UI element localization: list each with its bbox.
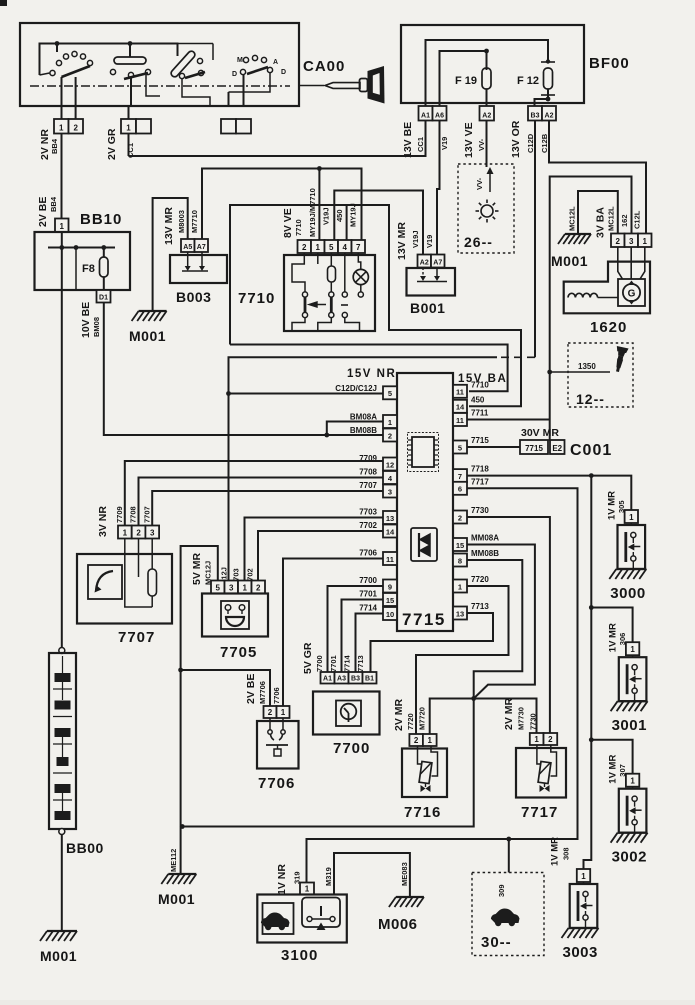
7710 interior: pin1 stub	[317, 253, 319, 264]
wire 7702	[258, 531, 383, 581]
wires 7709/7708/7707 to pins 12/4/3	[125, 461, 383, 526]
svg-text:13: 13	[456, 609, 464, 618]
svg-text:7714: 7714	[359, 604, 377, 613]
svg-text:14: 14	[386, 527, 395, 536]
svg-text:307: 307	[618, 764, 627, 777]
svg-text:13: 13	[386, 514, 394, 523]
internal bus A	[426, 40, 549, 106]
svg-text:MC12L: MC12L	[607, 206, 616, 231]
connector A2 under BF00	[480, 106, 495, 121]
ground M001 (bottom left)	[47, 930, 77, 932]
svg-text:BB4: BB4	[50, 138, 59, 154]
fuse box BF00	[401, 25, 584, 103]
svg-text:2: 2	[414, 736, 419, 745]
svg-text:2: 2	[256, 583, 261, 592]
svg-text:7715: 7715	[402, 610, 446, 629]
svg-text:1V MR: 1V MR	[606, 491, 617, 520]
svg-text:C001: C001	[570, 442, 612, 459]
svg-text:7: 7	[356, 243, 361, 252]
svg-text:1: 1	[581, 872, 586, 881]
svg-text:F 19: F 19	[455, 75, 477, 87]
svg-text:CA00: CA00	[303, 58, 345, 75]
svg-text:14: 14	[456, 403, 465, 412]
svg-text:2V BE: 2V BE	[245, 674, 257, 704]
svg-text:B3: B3	[351, 675, 360, 682]
svg-text:A1: A1	[421, 112, 430, 119]
svg-text:1: 1	[458, 582, 462, 591]
7710 interior: resistor + switch 2	[330, 253, 332, 266]
svg-text:M001: M001	[129, 328, 166, 344]
connector A1|A6 under BF00	[419, 106, 433, 121]
wire 7730 : pin2R to 7717	[467, 517, 550, 733]
ground M001 (mid)	[139, 310, 167, 312]
svg-text:B001: B001	[410, 300, 445, 316]
svg-text:1V MR: 1V MR	[608, 755, 619, 784]
svg-text:7710: 7710	[294, 219, 303, 236]
svg-text:3: 3	[629, 237, 634, 246]
svg-text:7710: 7710	[238, 290, 275, 307]
wire 7720 : pin1R to 7716	[416, 586, 509, 734]
battery BB00	[61, 290, 63, 648]
svg-text:BB4: BB4	[49, 196, 58, 212]
speedometer sensor 1620	[564, 262, 650, 314]
svg-text:C12D: C12D	[526, 133, 535, 153]
svg-text:7715: 7715	[471, 436, 489, 445]
svg-text:309: 309	[497, 884, 506, 897]
svg-text:M001: M001	[40, 948, 77, 964]
svg-text:MY19J/M7710: MY19J/M7710	[308, 188, 317, 237]
svg-text:A2: A2	[420, 259, 429, 266]
svg-text:V19J: V19J	[322, 207, 331, 225]
svg-text:13V OR: 13V OR	[510, 120, 522, 158]
svg-text:5: 5	[458, 443, 462, 452]
wire M7710 : B003-A7 to 7710 pins 1/7	[202, 169, 362, 241]
dashed box 30-- (alarm page 30)	[472, 873, 544, 956]
svg-text:7702: 7702	[359, 521, 377, 530]
wire battery to ground	[61, 834, 63, 931]
7710 interior: switch 1	[292, 253, 305, 292]
svg-text:BF00: BF00	[589, 55, 630, 72]
svg-text:3001: 3001	[612, 717, 647, 734]
svg-text:306: 306	[618, 633, 627, 646]
wires 7700/7701/7714 to pins 9/15/10	[328, 586, 384, 672]
svg-text:1: 1	[534, 735, 539, 744]
svg-text:MM08A: MM08A	[471, 534, 499, 543]
svg-text:1: 1	[316, 243, 321, 252]
BB10 internal bus + fuse F8	[61, 232, 63, 290]
svg-text:V19J: V19J	[411, 230, 420, 248]
svg-text:7703: 7703	[359, 508, 377, 517]
svg-text:1V MR: 1V MR	[608, 623, 619, 652]
svg-text:2: 2	[458, 513, 462, 522]
wire 8V VE feed path (from 7715 pin11R wrap)	[230, 205, 521, 406]
svg-text:3000: 3000	[610, 585, 645, 602]
svg-text:D: D	[232, 71, 237, 78]
svg-text:7706: 7706	[272, 687, 281, 704]
svg-text:1V MR: 1V MR	[550, 837, 561, 866]
svg-text:5: 5	[329, 243, 334, 252]
svg-text:10: 10	[386, 610, 394, 619]
svg-text:305: 305	[617, 500, 626, 513]
connector (blank) under CA00	[221, 119, 236, 134]
svg-text:M7710: M7710	[190, 210, 199, 233]
svg-text:11: 11	[386, 555, 394, 564]
wire M319 to M006	[334, 853, 410, 897]
svg-text:1: 1	[281, 708, 286, 717]
svg-text:7706: 7706	[258, 775, 295, 792]
svg-text:3: 3	[388, 487, 392, 496]
door switch 3003	[577, 869, 590, 882]
wire MM08A : pin15R to ground junction	[467, 545, 535, 699]
svg-text:3: 3	[150, 528, 155, 537]
svg-text:450: 450	[471, 395, 485, 404]
door switch 3001	[626, 642, 639, 655]
svg-text:30V MR: 30V MR	[521, 427, 559, 439]
svg-text:3002: 3002	[612, 849, 647, 866]
ground link M7720-M7730	[430, 699, 537, 735]
svg-text:M7706: M7706	[258, 681, 267, 704]
svg-text:G: G	[628, 289, 636, 300]
wire 450 : 7710 pin4 riser	[346, 205, 348, 240]
svg-text:7701: 7701	[359, 590, 377, 599]
svg-text:9: 9	[388, 582, 392, 591]
svg-text:7700: 7700	[333, 740, 370, 757]
svg-text:C12L: C12L	[633, 210, 642, 229]
svg-text:2V BE: 2V BE	[37, 197, 49, 227]
svg-text:2V MR: 2V MR	[393, 698, 405, 731]
svg-text:M006: M006	[378, 916, 418, 933]
svg-text:1: 1	[59, 123, 64, 132]
svg-text:3003: 3003	[563, 944, 598, 961]
wire CC1 : CA00 to BF00-A1	[129, 121, 426, 157]
svg-text:7720: 7720	[406, 713, 415, 730]
svg-text:3V BA: 3V BA	[595, 207, 607, 238]
svg-text:2: 2	[388, 431, 392, 440]
svg-text:7707: 7707	[359, 481, 377, 490]
svg-text:M319: M319	[324, 867, 333, 886]
svg-text:7717: 7717	[471, 477, 489, 486]
svg-text:2: 2	[136, 528, 141, 537]
svg-text:1: 1	[243, 583, 248, 592]
svg-text:7717: 7717	[521, 804, 558, 821]
sensor icon	[612, 346, 629, 373]
svg-text:7: 7	[458, 472, 462, 481]
wire C12D : BF00-B3 down	[534, 121, 536, 358]
fuel gauge 7707	[124, 539, 126, 555]
svg-text:11: 11	[456, 416, 464, 425]
svg-text:13V BE: 13V BE	[402, 122, 414, 158]
wire C12B : BF00-A2 to 1620 pin1 (C12L)	[549, 121, 646, 234]
svg-text:VV-: VV-	[477, 138, 486, 151]
svg-text:8: 8	[458, 556, 462, 565]
wire 2V GR CC1	[128, 134, 130, 157]
svg-text:BM08: BM08	[92, 317, 101, 337]
ground collector G1	[182, 699, 473, 827]
wire M7706 to ground rail	[181, 670, 270, 706]
wire MC12L : 1620 pin2 to ground	[578, 191, 618, 234]
svg-text:13V VE: 13V VE	[463, 122, 475, 158]
svg-text:12: 12	[386, 460, 394, 469]
svg-text:7730: 7730	[471, 506, 489, 515]
svg-text:C12B: C12B	[540, 133, 549, 153]
svg-text:A5: A5	[183, 244, 192, 251]
svg-text:13V MR: 13V MR	[396, 222, 408, 260]
svg-text:2: 2	[548, 735, 553, 744]
internal bus B	[440, 51, 487, 106]
svg-text:7700: 7700	[315, 655, 324, 672]
svg-text:7707: 7707	[142, 506, 151, 523]
svg-text:C12D/C12J: C12D/C12J	[335, 384, 377, 393]
svg-text:7701: 7701	[329, 655, 338, 672]
door switch 3000	[625, 510, 638, 523]
wire 7718 : pin7R to switch feeds	[467, 476, 631, 510]
svg-text:3100: 3100	[281, 947, 318, 964]
wire VV- : BF00-A2 to box 26	[486, 121, 488, 168]
wire MC12J to ground rail	[181, 546, 218, 874]
svg-text:7700: 7700	[359, 576, 377, 585]
7710 interior: switch 3 contact	[344, 253, 346, 292]
svg-text:BB10: BB10	[80, 211, 122, 228]
ignition switch CA00	[20, 23, 345, 106]
wire 7703	[245, 518, 384, 581]
svg-text:A2: A2	[545, 112, 554, 119]
svg-text:M7730: M7730	[517, 707, 526, 730]
svg-text:7709: 7709	[115, 506, 124, 523]
instrument cluster 7715	[397, 373, 453, 631]
ground M006	[396, 896, 424, 898]
svg-text:7706: 7706	[359, 549, 377, 558]
svg-text:MY19J: MY19J	[349, 203, 358, 227]
7710 inner box	[284, 255, 375, 331]
svg-text:B1: B1	[365, 675, 374, 682]
svg-text:1: 1	[428, 736, 433, 745]
svg-text:7708: 7708	[129, 506, 138, 523]
connector 1|2|3 above 7707	[118, 526, 132, 539]
svg-text:M: M	[237, 57, 243, 64]
svg-text:F 12: F 12	[517, 75, 539, 87]
svg-text:A: A	[273, 59, 278, 66]
svg-text:1: 1	[630, 645, 635, 654]
svg-text:2: 2	[302, 243, 307, 252]
svg-text:2: 2	[268, 708, 273, 717]
svg-text:VV-: VV-	[475, 177, 484, 190]
wire V19 : BF00-A6 to B001-A7	[437, 121, 440, 255]
svg-text:A7: A7	[433, 259, 442, 266]
svg-text:1: 1	[630, 777, 635, 786]
dashed box 26-- (courtesy lamp circuit page 26)	[458, 164, 514, 253]
svg-text:30--: 30--	[481, 934, 512, 951]
svg-text:7715: 7715	[525, 444, 543, 453]
svg-text:3V NR: 3V NR	[97, 506, 109, 537]
svg-text:7705: 7705	[220, 644, 257, 661]
wire V19J : 7710 pin5 to B001-A2	[334, 191, 423, 255]
svg-text:1: 1	[60, 222, 65, 231]
lamp symbol	[481, 205, 493, 217]
svg-text:3: 3	[229, 583, 234, 592]
door switch 3002	[626, 774, 639, 787]
connector C001	[467, 446, 520, 448]
wire 309 to box 30	[508, 839, 510, 873]
dashed box 12-- (diagnostic socket page 12)	[568, 343, 633, 407]
svg-text:M001: M001	[158, 891, 195, 907]
7710 pin connector row 2|1|5|4|7	[298, 240, 312, 253]
svg-text:7713: 7713	[356, 655, 365, 672]
svg-text:F8: F8	[82, 263, 95, 275]
svg-text:A7: A7	[197, 244, 206, 251]
svg-text:13V MR: 13V MR	[163, 207, 175, 245]
svg-text:B3: B3	[531, 112, 540, 119]
svg-text:6: 6	[458, 485, 462, 494]
svg-text:1: 1	[629, 513, 634, 522]
svg-text:450: 450	[335, 209, 344, 222]
ground M001 (right)	[565, 233, 591, 235]
svg-text:1V NR: 1V NR	[276, 864, 288, 895]
svg-text:5V GR: 5V GR	[302, 642, 314, 674]
wire 1350	[547, 370, 552, 375]
fuse F12	[544, 68, 553, 89]
svg-text:5V MR: 5V MR	[191, 552, 203, 585]
wire C12D/C12J : to 7715 pin5 and 7705	[497, 356, 535, 358]
ignition key icon	[299, 85, 324, 87]
svg-text:15V NR: 15V NR	[347, 368, 396, 380]
svg-text:BB00: BB00	[66, 840, 104, 856]
svg-text:A3: A3	[337, 675, 346, 682]
svg-text:ME083: ME083	[400, 862, 409, 886]
svg-text:7718: 7718	[471, 465, 489, 474]
svg-text:D1: D1	[99, 294, 108, 301]
svg-text:A1: A1	[323, 675, 332, 682]
svg-text:D: D	[281, 69, 286, 76]
svg-text:2: 2	[74, 123, 79, 132]
svg-text:MM08B: MM08B	[471, 549, 499, 558]
fuse F19	[482, 68, 491, 89]
svg-text:4: 4	[343, 243, 348, 252]
wire MM08B : pin8R to ground junction	[467, 560, 522, 699]
svg-text:V19: V19	[425, 235, 434, 248]
svg-text:E2: E2	[552, 444, 562, 453]
wires BM08A/BM08B	[327, 422, 383, 436]
svg-text:A2: A2	[482, 112, 491, 119]
connector 1|2 under CA00	[61, 106, 63, 119]
svg-text:5: 5	[216, 583, 221, 592]
svg-text:7707: 7707	[118, 629, 155, 646]
wire 162 : C001 riser to 1620 pin3	[550, 177, 632, 442]
svg-text:1: 1	[643, 237, 648, 246]
svg-text:CC1: CC1	[416, 137, 425, 152]
svg-text:V19: V19	[440, 137, 449, 150]
svg-text:BM08A: BM08A	[350, 413, 377, 422]
svg-text:7714: 7714	[343, 654, 352, 672]
connector B3|A2 under BF00	[528, 106, 542, 121]
svg-text:B003: B003	[176, 289, 211, 305]
svg-text:7708: 7708	[359, 468, 377, 477]
svg-text:7711: 7711	[471, 409, 489, 418]
svg-text:1620: 1620	[590, 319, 627, 336]
svg-text:308: 308	[562, 847, 571, 860]
svg-text:7716: 7716	[404, 804, 441, 821]
wire 2V NR BB4	[61, 134, 63, 219]
svg-text:M8003: M8003	[177, 210, 186, 233]
svg-text:7713: 7713	[471, 602, 489, 611]
svg-text:10V BE: 10V BE	[80, 302, 92, 338]
svg-text:1: 1	[388, 418, 392, 427]
connector 1 under CA00 (2V GR)	[128, 106, 130, 119]
svg-text:26--: 26--	[464, 234, 493, 250]
svg-text:MC12L: MC12L	[568, 206, 577, 231]
svg-text:2V MR: 2V MR	[503, 697, 515, 730]
svg-text:8V VE: 8V VE	[282, 208, 294, 238]
wire 7711 join	[467, 419, 550, 421]
svg-text:5: 5	[388, 389, 392, 398]
wire 7713 from pin 13R	[371, 613, 494, 672]
7715 right pin cells	[453, 385, 467, 398]
svg-text:M001: M001	[551, 253, 588, 269]
svg-text:7710: 7710	[471, 380, 489, 389]
svg-text:M7720: M7720	[418, 707, 427, 730]
svg-text:1: 1	[126, 123, 131, 132]
svg-text:ME112: ME112	[169, 849, 178, 872]
wire 7706 to pin 11L	[283, 559, 383, 707]
svg-text:A6: A6	[435, 112, 444, 119]
svg-text:2: 2	[616, 237, 621, 246]
svg-text:2V GR: 2V GR	[106, 128, 118, 160]
svg-text:1: 1	[305, 884, 310, 893]
svg-text:1: 1	[123, 528, 128, 537]
svg-text:BM08B: BM08B	[350, 426, 377, 435]
wire M8003 to ground	[153, 198, 188, 311]
wire 319 : pin6R to 3100	[307, 488, 578, 882]
svg-text:11: 11	[456, 388, 464, 397]
svg-text:12--: 12--	[576, 391, 605, 407]
svg-text:7720: 7720	[471, 575, 489, 584]
svg-text:15: 15	[386, 596, 394, 605]
svg-text:15: 15	[456, 541, 464, 550]
7710 interior: lamp	[358, 253, 361, 270]
7715 left pin cells	[383, 386, 397, 399]
connector D1	[97, 290, 111, 303]
svg-text:162: 162	[620, 214, 629, 227]
svg-text:1350: 1350	[578, 362, 596, 371]
connector 2|3|1 above 1620	[611, 234, 625, 248]
